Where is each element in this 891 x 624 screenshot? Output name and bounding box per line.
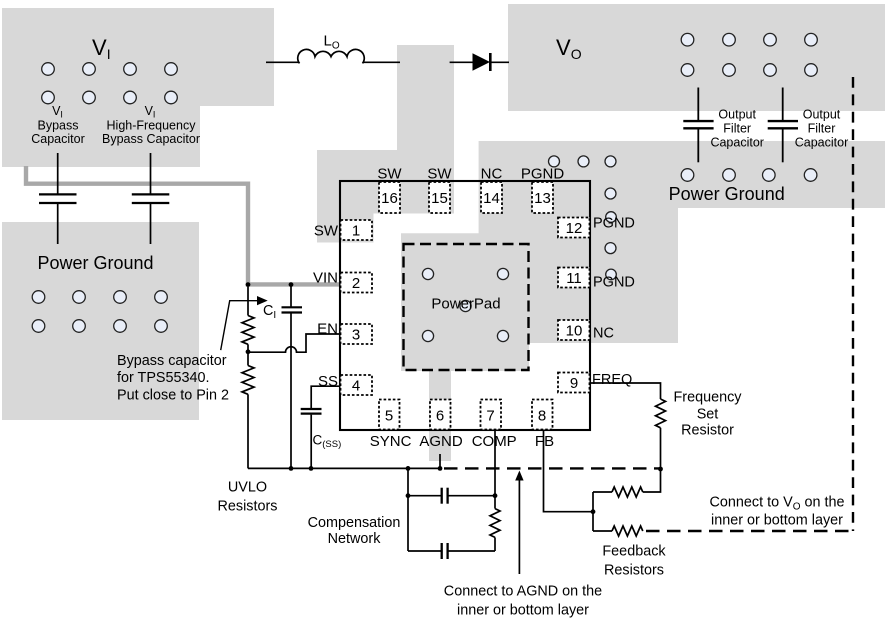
svg-text:PGND: PGND	[521, 166, 565, 183]
svg-text:16: 16	[381, 190, 398, 207]
svg-text:Bypass: Bypass	[38, 119, 79, 133]
svg-text:Capacitor: Capacitor	[795, 136, 849, 150]
svg-text:VIN: VIN	[313, 269, 338, 286]
svg-text:Bypass capacitor: Bypass capacitor	[117, 353, 227, 369]
svg-text:PGND: PGND	[593, 216, 635, 232]
svg-text:SW: SW	[314, 222, 339, 239]
svg-text:SS: SS	[318, 373, 338, 390]
svg-text:Frequency: Frequency	[674, 390, 743, 406]
svg-text:12: 12	[566, 220, 583, 237]
svg-text:Power Ground: Power Ground	[669, 184, 785, 204]
svg-text:Resistor: Resistor	[681, 423, 734, 439]
svg-text:COMP: COMP	[472, 433, 517, 450]
svg-text:UVLO: UVLO	[228, 480, 267, 496]
svg-text:FREQ: FREQ	[592, 372, 632, 388]
svg-text:Feedback: Feedback	[602, 544, 666, 560]
svg-text:FB: FB	[535, 433, 554, 450]
svg-text:8: 8	[538, 408, 546, 425]
svg-text:Bypass Capacitor: Bypass Capacitor	[102, 132, 200, 146]
svg-text:11: 11	[566, 270, 582, 287]
svg-text:15: 15	[431, 190, 448, 207]
svg-text:for TPS55340.: for TPS55340.	[117, 370, 210, 386]
svg-text:Set: Set	[697, 407, 719, 423]
svg-text:2: 2	[352, 275, 360, 292]
svg-text:4: 4	[352, 378, 360, 395]
svg-text:5: 5	[385, 408, 393, 425]
svg-text:EN: EN	[317, 320, 338, 337]
svg-text:NC: NC	[481, 166, 503, 183]
svg-text:7: 7	[486, 408, 494, 425]
svg-text:9: 9	[570, 375, 578, 392]
svg-text:10: 10	[566, 323, 583, 340]
svg-text:inner or bottom layer: inner or bottom layer	[711, 513, 843, 529]
svg-text:PowerPad: PowerPad	[431, 296, 500, 313]
svg-text:6: 6	[436, 408, 444, 425]
svg-text:13: 13	[534, 190, 551, 207]
svg-text:Capacitor: Capacitor	[710, 136, 764, 150]
svg-text:Power Ground: Power Ground	[37, 253, 153, 273]
svg-text:Capacitor: Capacitor	[31, 132, 85, 146]
svg-text:Network: Network	[328, 531, 382, 547]
svg-text:14: 14	[483, 190, 500, 207]
svg-text:AGND: AGND	[419, 433, 463, 450]
svg-text:PGND: PGND	[593, 274, 635, 290]
svg-text:Connect to AGND on the: Connect to AGND on the	[444, 584, 602, 600]
svg-text:High-Frequency: High-Frequency	[107, 119, 197, 133]
svg-text:Output: Output	[803, 108, 841, 122]
svg-text:Output: Output	[718, 108, 756, 122]
svg-text:SW: SW	[377, 166, 402, 183]
svg-text:Resistors: Resistors	[218, 499, 278, 515]
svg-text:1: 1	[352, 223, 360, 240]
svg-text:SW: SW	[427, 166, 452, 183]
svg-text:Filter: Filter	[723, 121, 751, 135]
svg-text:Compensation: Compensation	[308, 515, 401, 531]
svg-text:NC: NC	[593, 325, 614, 341]
svg-text:3: 3	[352, 327, 360, 344]
svg-text:SYNC: SYNC	[370, 433, 412, 450]
svg-text:inner or bottom layer: inner or bottom layer	[457, 602, 589, 618]
svg-text:Resistors: Resistors	[604, 563, 664, 579]
svg-text:Connect to VO on the: Connect to VO on the	[710, 495, 845, 513]
svg-text:Filter: Filter	[808, 121, 836, 135]
svg-text:Put close to Pin 2: Put close to Pin 2	[117, 388, 229, 404]
